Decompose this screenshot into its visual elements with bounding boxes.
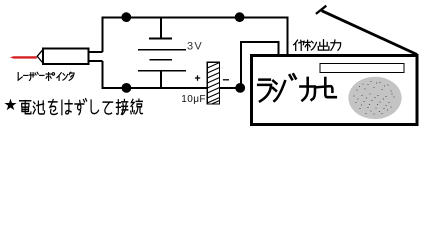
kanji SETSU [116,100,127,115]
wire bottom rail [102,87,208,89]
note star battery warning text [4,99,142,115]
hiragana ZU [75,99,87,115]
battery B1 plate short 1 [149,37,172,39]
antenna tip tick [316,6,326,14]
wire laser bottom stub [89,60,103,62]
speaker [348,77,401,119]
star [4,99,16,111]
antenna [322,11,417,55]
label minus [223,79,229,81]
junction dot bottom [122,83,132,93]
junction dot top-right [235,12,245,22]
laser beam [10,56,37,58]
capacitor C1 body (hatched) [207,62,219,104]
battery B1 plate short 2 [149,59,172,61]
radio cassette body [252,56,418,125]
wire top rail drop into radio [287,17,289,56]
label radio-cassette (rajikase) [258,74,336,101]
svg-text:3V: 3V [187,41,203,53]
wire top rail [102,16,289,18]
label plus [195,75,200,80]
junction dot earphone plug [235,83,245,93]
wire capacitor right [219,87,237,89]
wire earphone loop [241,42,278,88]
wire laser top stub [89,51,103,53]
battery B1 plate long 1 [138,49,186,51]
hiragana HA [62,100,72,114]
junction dot top-left [121,12,131,22]
kanji ZOKU [131,99,143,114]
label earphone output (iyahon shutsuryoku) [294,40,341,51]
hiragana WO [49,100,58,115]
laser pointer body [43,49,89,64]
hiragana SHI [91,100,98,113]
laser pointer head [37,50,43,63]
hiragana TE [103,102,113,114]
kanji CHI [33,101,44,114]
radio display window [320,63,404,72]
wire laser top vertical [102,17,104,52]
battery B1 bottom lead [160,71,162,88]
battery B1 top lead [160,17,162,38]
kanji DEN [20,101,31,114]
battery B1 plate long 2 [138,70,186,72]
label laser pointer (small katakana) [18,72,74,80]
svg-text:10μF: 10μF [181,94,206,105]
wire laser bottom vertical [102,61,104,88]
